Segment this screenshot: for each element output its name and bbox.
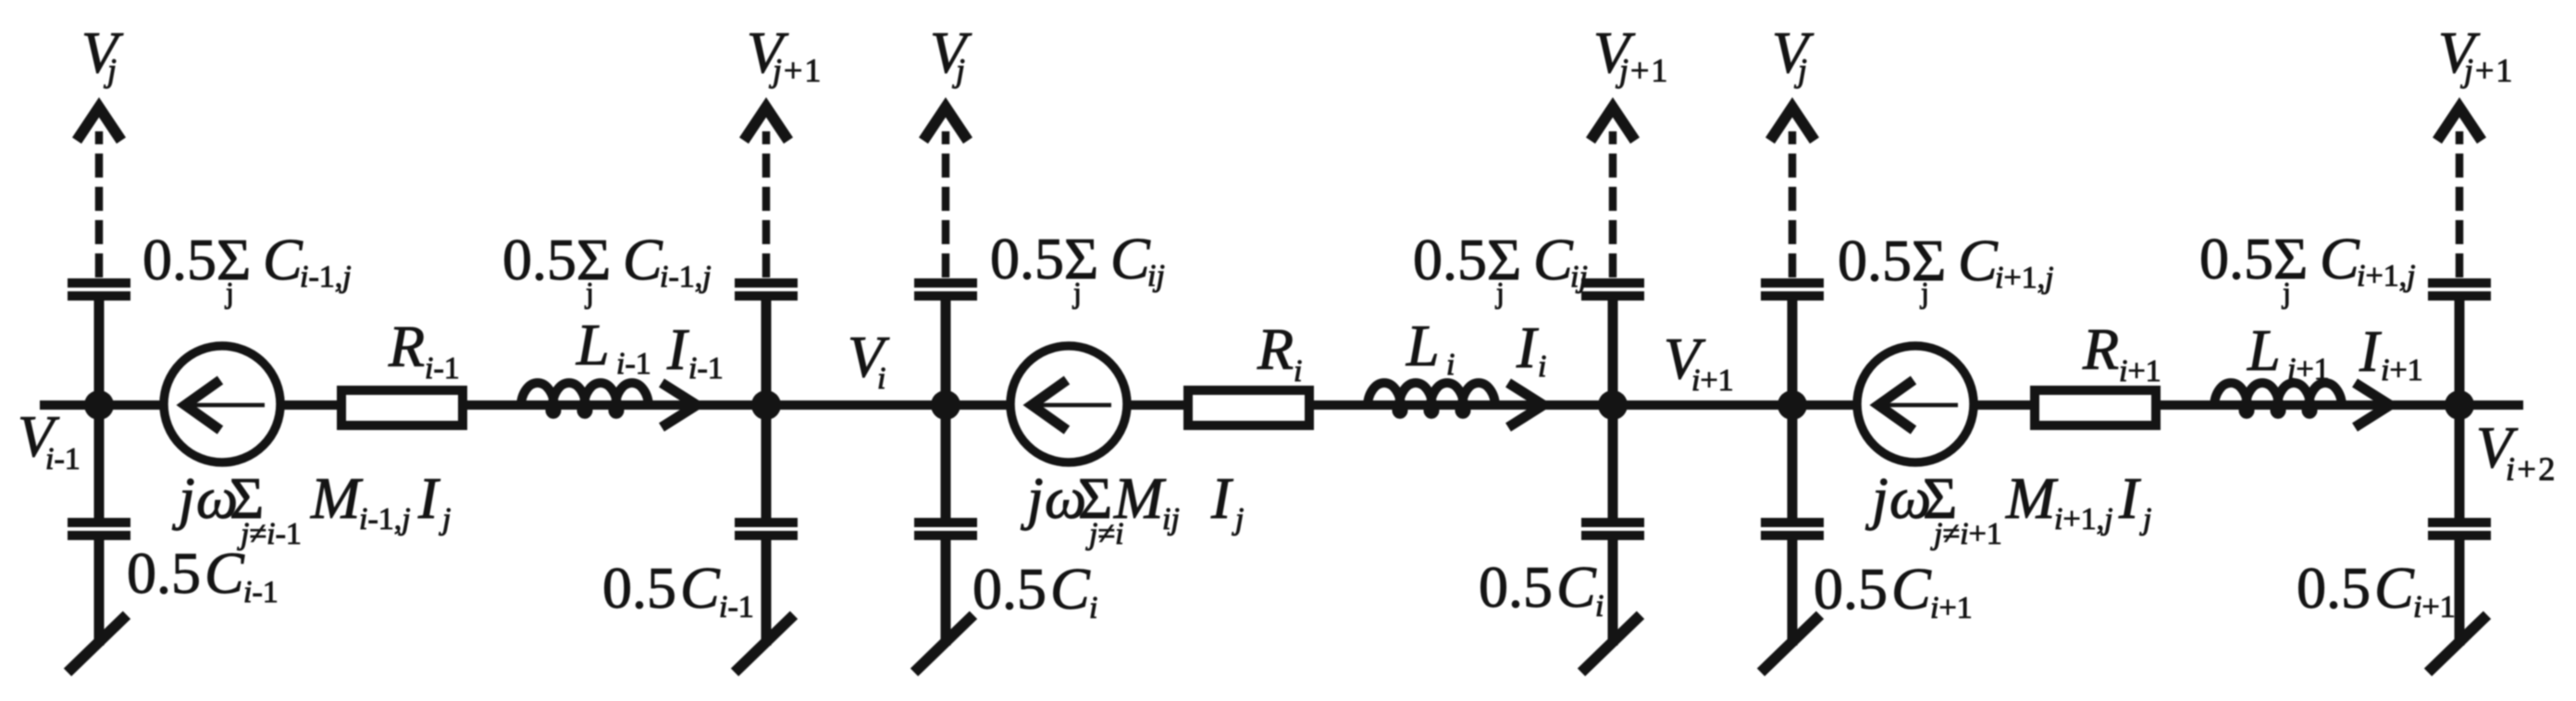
svg-text:i-1: i-1 bbox=[425, 351, 460, 386]
ground 3 bbox=[914, 615, 973, 672]
svg-text:j+1: j+1 bbox=[2460, 52, 2514, 89]
svg-text:C: C bbox=[1556, 554, 1597, 620]
arrowhead Vj 1 bbox=[77, 107, 121, 141]
label L_i+1 bbox=[2247, 317, 2330, 387]
label I_i-1 bbox=[666, 316, 724, 386]
current source U3 circle bbox=[1857, 346, 1974, 462]
svg-text:I: I bbox=[417, 465, 440, 531]
svg-text:0.5Σ: 0.5Σ bbox=[990, 226, 1098, 291]
label j&#969;&#931;M_i,j I_j source 2 bbox=[1021, 465, 1244, 551]
svg-text:0.5: 0.5 bbox=[602, 555, 676, 621]
wire dashed riser to Vj+1 6 bbox=[2456, 131, 2464, 277]
wire to ground 2 bbox=[762, 540, 772, 646]
node junction dot 6 bbox=[2445, 390, 2474, 420]
inductor L3 coil bbox=[2214, 383, 2342, 414]
svg-text:j+1: j+1 bbox=[1616, 52, 1669, 89]
svg-text:ij: ij bbox=[1570, 260, 1588, 294]
svg-text:i-1: i-1 bbox=[243, 575, 279, 609]
label 0.5&#931;C_ij top cap 4 bbox=[1413, 227, 1588, 309]
node label V_j 5 bbox=[1772, 19, 1814, 89]
ground 5 bbox=[1761, 615, 1820, 672]
svg-text:0.5: 0.5 bbox=[1479, 554, 1553, 620]
svg-text:0.5Σ: 0.5Σ bbox=[502, 227, 611, 292]
svg-text:j≠i+1: j≠i+1 bbox=[1930, 517, 2002, 551]
svg-text:i+1,j: i+1,j bbox=[1995, 261, 2054, 295]
node junction dot 3 bbox=[931, 390, 960, 420]
svg-text:0.5Σ: 0.5Σ bbox=[1838, 228, 1946, 293]
ground 4 bbox=[1581, 615, 1641, 672]
current source U1 arrow bbox=[181, 380, 265, 430]
ground 6 bbox=[2428, 615, 2487, 672]
inductor L2 coil bbox=[1368, 383, 1495, 414]
svg-text:i: i bbox=[1089, 591, 1097, 625]
capacitor 0.5C bottom plates 4 bbox=[1581, 518, 1644, 540]
label L_i bbox=[1406, 313, 1455, 382]
label j&#969;&#931;M_i+1,j I_j source 3 bbox=[1865, 465, 2151, 551]
wire vertical below node 5 bbox=[1788, 405, 1798, 519]
arrowhead Vj+1 2 bbox=[744, 107, 788, 141]
label 0.5C_i+1 bottom cap 5 bbox=[1814, 556, 1973, 625]
capacitor 0.5C bottom plates 6 bbox=[2428, 518, 2491, 540]
capacitor 0.5&#931;C top plates 2 bbox=[735, 278, 798, 301]
svg-text:i-1: i-1 bbox=[616, 347, 651, 381]
svg-text:j: j bbox=[225, 276, 234, 309]
node junction dot 4 bbox=[1598, 390, 1628, 420]
svg-text:C: C bbox=[680, 555, 721, 621]
svg-text:j: j bbox=[1072, 276, 1082, 309]
svg-text:R: R bbox=[2082, 316, 2119, 382]
ground 2 bbox=[735, 615, 794, 672]
current source U2 arrow bbox=[1028, 380, 1111, 430]
wire to ground 6 bbox=[2455, 540, 2465, 646]
svg-text:C: C bbox=[1533, 227, 1574, 292]
node label V_i+2 bbox=[2476, 414, 2557, 487]
wire vertical above node 5 bbox=[1788, 298, 1798, 405]
label j&#969;&#931;M_i-1,j I_j source 1 bbox=[172, 465, 451, 551]
svg-text:i-1,j: i-1,j bbox=[660, 260, 712, 294]
svg-text:M: M bbox=[2005, 465, 2059, 531]
wire to ground 3 bbox=[941, 540, 951, 646]
capacitor 0.5&#931;C top plates 3 bbox=[914, 278, 977, 301]
svg-text:C: C bbox=[1958, 228, 1999, 293]
svg-text:0.5Σ: 0.5Σ bbox=[2199, 226, 2308, 291]
wire vertical below node 4 bbox=[1608, 405, 1618, 519]
wire vertical above node 4 bbox=[1608, 298, 1618, 405]
arrowhead Vj+1 6 bbox=[2437, 107, 2482, 141]
wire dashed riser to Vj+1 4 bbox=[1609, 131, 1617, 277]
svg-text:j: j bbox=[585, 276, 594, 309]
current arrow I3 bbox=[2355, 383, 2390, 427]
svg-text:i-1: i-1 bbox=[45, 442, 80, 476]
capacitor 0.5C bottom plates 2 bbox=[735, 518, 798, 540]
wire to ground 4 bbox=[1608, 540, 1618, 646]
node label V_j 3 bbox=[930, 19, 972, 89]
svg-text:j+1: j+1 bbox=[769, 52, 823, 89]
svg-text:i+2: i+2 bbox=[2506, 450, 2557, 487]
svg-text:i+1: i+1 bbox=[2413, 590, 2456, 624]
svg-text:0.5: 0.5 bbox=[127, 540, 201, 606]
svg-text:L: L bbox=[1406, 313, 1440, 378]
svg-text:i: i bbox=[1538, 350, 1546, 384]
current arrow I1 bbox=[662, 383, 697, 427]
wire dashed riser to Vj 5 bbox=[1789, 131, 1797, 277]
current source U3 arrow bbox=[1875, 380, 1958, 430]
svg-text:C: C bbox=[2320, 226, 2360, 291]
svg-text:i+1: i+1 bbox=[2287, 352, 2330, 387]
svg-text:C: C bbox=[204, 540, 245, 606]
capacitor 0.5C bottom plates 1 bbox=[68, 518, 130, 540]
svg-text:j: j bbox=[1920, 276, 1929, 309]
svg-text:0.5Σ: 0.5Σ bbox=[142, 227, 251, 292]
arrowhead Vj 5 bbox=[1770, 107, 1814, 141]
resistor R2 box bbox=[1188, 390, 1309, 425]
wire vertical above node 1 bbox=[94, 298, 105, 405]
svg-text:0.5: 0.5 bbox=[972, 556, 1046, 621]
label 0.5&#931;C_ij top cap 3 bbox=[990, 226, 1165, 309]
svg-text:i: i bbox=[1595, 589, 1604, 623]
svg-text:I: I bbox=[2118, 465, 2141, 531]
svg-text:i-1: i-1 bbox=[688, 351, 724, 386]
label 0.5&#931;C_i+1,j top cap 6 bbox=[2199, 226, 2416, 309]
capacitor 0.5&#931;C top plates 5 bbox=[1761, 278, 1824, 301]
current source U1 circle bbox=[164, 346, 280, 462]
svg-text:R: R bbox=[388, 314, 425, 379]
svg-text:i: i bbox=[1294, 354, 1302, 388]
svg-text:i+1: i+1 bbox=[2381, 353, 2423, 387]
svg-text:C: C bbox=[263, 227, 303, 292]
label 0.5&#931;C_i-1,j top cap 1 bbox=[142, 227, 352, 309]
svg-text:0.5: 0.5 bbox=[1814, 556, 1888, 621]
capacitor 0.5&#931;C top plates 6 bbox=[2428, 278, 2491, 301]
svg-text:i-1: i-1 bbox=[719, 590, 754, 624]
label 0.5C_i bottom cap 4 bbox=[1479, 554, 1604, 623]
node label V_j+1 4 bbox=[1593, 19, 1669, 89]
svg-text:i+1: i+1 bbox=[1691, 363, 1734, 398]
node junction dot 5 bbox=[1777, 390, 1807, 420]
label 0.5C_i-1 bottom cap 2 bbox=[602, 555, 754, 624]
capacitor 0.5&#931;C top plates 1 bbox=[68, 278, 130, 301]
label 0.5C_i bottom cap 3 bbox=[972, 556, 1097, 625]
wire vertical above node 2 bbox=[762, 298, 772, 405]
wire vertical above node 6 bbox=[2455, 298, 2465, 405]
svg-text:L: L bbox=[576, 312, 610, 377]
label R_i+1 bbox=[2082, 316, 2161, 388]
node label V_i+1 bbox=[1664, 326, 1734, 398]
wire dashed riser to Vj+1 2 bbox=[762, 131, 771, 277]
node label V_j 1 bbox=[81, 19, 124, 89]
label R_i-1 bbox=[388, 314, 460, 386]
svg-text:M: M bbox=[1113, 465, 1167, 531]
svg-text:R: R bbox=[1257, 316, 1294, 382]
inductor L1 coil bbox=[521, 383, 649, 414]
svg-text:0.5: 0.5 bbox=[2297, 555, 2371, 621]
svg-text:i+1,j: i+1,j bbox=[2357, 259, 2416, 293]
capacitor 0.5&#931;C top plates 4 bbox=[1581, 278, 1644, 301]
arrowhead Vj 3 bbox=[923, 107, 968, 141]
svg-text:I: I bbox=[2359, 318, 2382, 384]
wire vertical below node 1 bbox=[94, 405, 105, 519]
svg-text:i+1: i+1 bbox=[1930, 591, 1973, 625]
label 0.5C_i-1 bottom cap 1 bbox=[127, 540, 279, 609]
label L_i-1 bbox=[576, 312, 651, 381]
node label V_j+1 6 bbox=[2438, 19, 2514, 89]
svg-text:C: C bbox=[1110, 226, 1151, 291]
svg-text:I: I bbox=[666, 316, 689, 382]
svg-text:L: L bbox=[2247, 317, 2281, 383]
arrowhead Vj+1 4 bbox=[1591, 107, 1635, 141]
wire vertical below node 2 bbox=[762, 405, 772, 519]
current arrow I2 bbox=[1508, 383, 1543, 427]
node junction dot 2 bbox=[751, 390, 781, 420]
svg-text:i+1: i+1 bbox=[2119, 354, 2161, 388]
label 0.5&#931;C_i+1,j top cap 5 bbox=[1838, 228, 2054, 309]
svg-text:I: I bbox=[1210, 465, 1233, 531]
wire to ground 1 bbox=[94, 540, 105, 646]
label I_i bbox=[1516, 314, 1546, 384]
node label V_i-1 bbox=[18, 403, 80, 476]
ground 1 bbox=[68, 615, 127, 672]
resistor R1 box bbox=[341, 390, 463, 425]
capacitor 0.5C bottom plates 5 bbox=[1761, 518, 1824, 540]
wire vertical below node 3 bbox=[941, 405, 951, 519]
svg-text:C: C bbox=[2374, 555, 2415, 621]
svg-text:0.5Σ: 0.5Σ bbox=[1413, 227, 1521, 292]
wire dashed riser to Vj 1 bbox=[95, 131, 104, 277]
svg-text:i+1,j: i+1,j bbox=[2054, 502, 2113, 536]
svg-text:ij: ij bbox=[1147, 259, 1165, 293]
wire vertical above node 3 bbox=[941, 298, 951, 405]
wire to ground 5 bbox=[1788, 540, 1798, 646]
label I_i+1 bbox=[2359, 318, 2423, 387]
svg-text:j: j bbox=[2282, 276, 2291, 309]
svg-text:i: i bbox=[1446, 348, 1455, 382]
current source U2 circle bbox=[1010, 346, 1127, 462]
wire dashed riser to Vj 3 bbox=[942, 131, 950, 277]
svg-text:i-1,j: i-1,j bbox=[300, 260, 352, 294]
svg-text:i-1,j: i-1,j bbox=[359, 502, 411, 536]
svg-text:ij: ij bbox=[1162, 502, 1180, 536]
node label V_i bbox=[848, 324, 890, 396]
svg-text:j: j bbox=[1495, 276, 1505, 309]
svg-text:M: M bbox=[310, 465, 364, 531]
capacitor 0.5C bottom plates 3 bbox=[914, 518, 977, 540]
label 0.5C_i+1 bottom cap 6 bbox=[2297, 555, 2456, 624]
label 0.5&#931;C_i-1,j top cap 2 bbox=[502, 227, 712, 309]
wire main horizontal bus bbox=[40, 400, 2523, 410]
svg-text:C: C bbox=[1891, 556, 1932, 621]
svg-text:C: C bbox=[623, 227, 663, 292]
node junction dot 1 bbox=[84, 390, 114, 420]
svg-text:i: i bbox=[877, 362, 885, 396]
svg-text:C: C bbox=[1050, 556, 1091, 621]
resistor R3 box bbox=[2035, 390, 2156, 425]
node label V_j+1 2 bbox=[747, 19, 823, 89]
svg-text:I: I bbox=[1516, 314, 1539, 380]
wire vertical below node 6 bbox=[2455, 405, 2465, 519]
label R_i bbox=[1257, 316, 1302, 388]
svg-text:j≠i-1: j≠i-1 bbox=[237, 517, 302, 551]
